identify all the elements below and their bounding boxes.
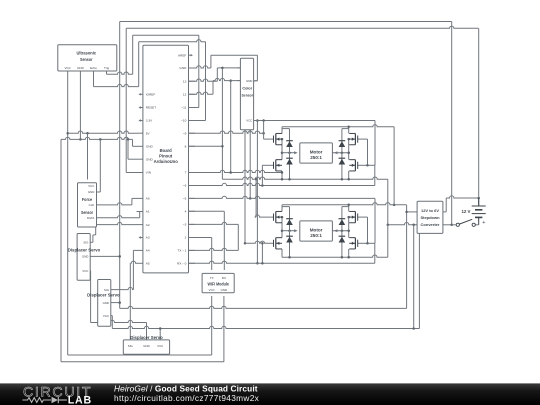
svg-text:HeiroGel / Good Seed Squad Cir: HeiroGel / Good Seed Squad Circuit bbox=[114, 384, 258, 394]
junction lower pin row ground column bbox=[387, 223, 390, 226]
wire battery top column bbox=[478, 28, 480, 205]
wire H-bridge 1 motor M1 left drain stub bbox=[281, 127, 283, 134]
svg-text:Displacer Servo: Displacer Servo bbox=[87, 293, 120, 298]
junction GND row ultrasonic column bbox=[79, 138, 82, 141]
junction H-bridge 2 motor M2 right source under rail bbox=[347, 256, 350, 259]
label H-bridge 1 motor M1 motor name bbox=[310, 149, 323, 160]
svg-text:Converter: Converter bbox=[421, 222, 440, 227]
svg-text:~10: ~10 bbox=[181, 119, 187, 123]
svg-text:A5: A5 bbox=[146, 262, 150, 266]
diode H-bridge 1 motor M1 D2 left lower bbox=[286, 158, 293, 164]
wire net switched 12V bottom rail bbox=[120, 205, 407, 309]
label H-bridge 2 motor M2 motor name bbox=[310, 227, 323, 238]
wire H-bridge 2 motor M2 right diode column bbox=[342, 207, 349, 258]
svg-text:DATA: DATA bbox=[87, 216, 94, 220]
junction H-bridge 2 motor M2 right gate tie bbox=[366, 242, 369, 245]
color sensor U3 box bbox=[240, 58, 253, 130]
wire color sensor bottom pin 1 to H-bridge 2 gate bbox=[244, 130, 246, 244]
wire H-bridge 1 motor M1 right diode column bbox=[342, 129, 349, 180]
svg-text:RX: RX bbox=[222, 276, 226, 280]
label color sensor bbox=[242, 79, 254, 123]
pin arrow H-bridge 1 motor M1 motor left bbox=[294, 151, 297, 154]
svg-text:2: 2 bbox=[185, 236, 187, 240]
wire ultrasonic GND column bbox=[79, 71, 81, 139]
svg-text:~9: ~9 bbox=[183, 131, 187, 135]
wire color sensor GND stub bbox=[254, 80, 258, 82]
label ultrasonic pins bbox=[65, 66, 110, 70]
junction RX row gate column bbox=[261, 262, 264, 265]
wire Arduino pin 6 row lower gate rail bbox=[189, 165, 375, 186]
svg-text:GND: GND bbox=[221, 288, 227, 292]
wire GND branch to Arduino GND 146 bbox=[133, 139, 137, 146]
junction pin 7 tap on 12 net bbox=[229, 79, 232, 82]
wire H-bridge 1 bottom-left gate feed bbox=[261, 165, 263, 185]
wire H-bridge 2 motor M2 right outer vertical bbox=[374, 199, 376, 244]
svg-text:GND: GND bbox=[246, 79, 252, 83]
stepdown converter U6 box bbox=[417, 201, 443, 233]
diode H-bridge 2 motor M2 D1 left upper bbox=[286, 219, 293, 225]
transistor H-bridge 1 motor M1 M2 bottom-left NMOS bbox=[274, 160, 283, 171]
svg-text:GND: GND bbox=[179, 66, 187, 70]
svg-text:A4: A4 bbox=[146, 249, 150, 253]
board U2 Arduino Uno box bbox=[143, 45, 189, 273]
junction 13 net column tap bbox=[221, 67, 224, 70]
svg-text:250:1: 250:1 bbox=[310, 233, 322, 238]
svg-text:Motor: Motor bbox=[310, 227, 323, 232]
wire H-bridge 1 drain rail link to H-bridge 2 bbox=[393, 127, 395, 205]
junction pin 7 row up-link column bbox=[229, 171, 232, 174]
wire force sensor VCC feed column bbox=[87, 133, 89, 179]
svg-text:A2: A2 bbox=[146, 223, 150, 227]
transistor H-bridge 2 motor M2 M4 bottom-right NMOS bbox=[349, 238, 358, 249]
svg-text:http://circuitlab.com/cz777t94: http://circuitlab.com/cz777t943mw2x bbox=[114, 393, 260, 403]
svg-text:Displacer Servo: Displacer Servo bbox=[130, 335, 163, 340]
wire Arduino VIN feed bbox=[126, 172, 136, 174]
label Arduino name bbox=[154, 148, 179, 164]
junction stepdown upper pin column bbox=[405, 211, 408, 214]
svg-text:CLK: CLK bbox=[89, 203, 95, 207]
label Arduino left pins bbox=[137, 93, 157, 266]
transistor H-bridge 2 motor M2 M1 top-left NMOS bbox=[274, 211, 283, 222]
junction H-bridge 1 motor M1 left diode under rail bbox=[288, 178, 291, 181]
wire Arduino pin 2 to WiFi TX bbox=[189, 238, 212, 271]
junction H-bridge 2 motor M2 right diode motor row bbox=[341, 229, 344, 232]
svg-text:Board: Board bbox=[160, 148, 173, 153]
wire H-bridge 2 motor M2 right gates tie bbox=[358, 217, 368, 243]
junction pin 8 tap bbox=[221, 145, 224, 148]
svg-text:VCC: VCC bbox=[209, 288, 215, 292]
wire Arduino pin 13 to color sensor bbox=[189, 68, 241, 81]
junction GND branch point bbox=[127, 138, 130, 141]
label Arduino right pins bbox=[177, 53, 195, 265]
wire H-bridge 1 motor M1 right half-bridge column bbox=[348, 139, 350, 160]
svg-text:Color: Color bbox=[242, 86, 252, 91]
svg-text:TX: TX bbox=[210, 276, 214, 280]
junction gate lead bbox=[244, 242, 247, 245]
transistor H-bridge 2 motor M2 M3 top-right NMOS bbox=[349, 211, 358, 222]
wire H-bridge 1 motor M1 right gates tie bbox=[358, 139, 368, 165]
wire Arduino TX and pin 3 link bbox=[189, 222, 239, 250]
wire Arduino pin 4 to WiFi RX bbox=[189, 211, 225, 270]
svg-text:Ultrasonic: Ultrasonic bbox=[77, 51, 97, 56]
svg-text:4: 4 bbox=[185, 210, 187, 214]
svg-text:IOREF: IOREF bbox=[146, 93, 156, 97]
junction pin 6 row gate column bbox=[261, 184, 264, 187]
svg-text:12 V: 12 V bbox=[461, 209, 470, 214]
wire H-bridge 2 motor M2 top-left gate lead bbox=[255, 215, 273, 217]
motor H-bridge 1 motor M1 box bbox=[300, 143, 333, 163]
svg-text:SIG: SIG bbox=[104, 288, 110, 292]
battery V1 12V bbox=[472, 198, 486, 225]
servo M5 displacer servo 1 box bbox=[77, 234, 90, 281]
junction H-bridge 2 motor M2 right node motor row bbox=[347, 229, 350, 232]
wire servo 3 VCC stub bbox=[159, 329, 161, 340]
junction pin 9 gate column bbox=[262, 132, 265, 135]
wire servo 2 GND to left power column bbox=[111, 302, 120, 304]
label battery plus bbox=[482, 220, 485, 226]
transistor H-bridge 1 motor M1 M3 top-right NMOS bbox=[349, 133, 358, 144]
diode H-bridge 1 motor M1 D3 right upper bbox=[339, 141, 346, 147]
svg-text:12V to 6V: 12V to 6V bbox=[421, 208, 439, 213]
wire H-bridge 1 motor M1 right gate branch bbox=[368, 164, 376, 166]
junction servo 2 GND column bbox=[118, 301, 121, 304]
svg-text:GND: GND bbox=[143, 344, 149, 348]
junction H-bridge 2 motor M2 right drain rail bbox=[347, 204, 350, 207]
wire H-bridge 2 motor M2 motor row left bbox=[282, 230, 295, 232]
wire servo 2 VCC to 6V supply rail bbox=[111, 233, 420, 328]
servo M6 displacer servo 2 box bbox=[98, 280, 111, 327]
diode H-bridge 2 motor M2 D2 left lower bbox=[286, 236, 293, 242]
wire H-bridge 2 motor M2 right source column bbox=[348, 249, 350, 257]
wire H-bridge 2 motor M2 right gate branch bbox=[368, 242, 376, 244]
wire H-bridge 1 motor M1 left diode column bbox=[282, 129, 290, 180]
wire H-bridge 2 motor M2 drain rail bbox=[282, 203, 407, 205]
wire Arduino RX row H-bridge 2 lower gate rail bbox=[189, 243, 375, 263]
junction under rail H-bridge 2 gate column bbox=[255, 178, 258, 181]
wire Arduino A4 to servo 2 SIG bbox=[111, 250, 137, 289]
junction switch feed column bbox=[450, 224, 453, 227]
wire H-bridge 1 motor M1 right outer vertical bbox=[374, 121, 376, 166]
junction VCC stub gate rail bbox=[256, 119, 259, 122]
svg-text:Sensor: Sensor bbox=[242, 93, 254, 98]
label servo 2 bbox=[87, 288, 120, 318]
wire H-bridge 2 motor M2 bottom-left gate lead bbox=[245, 241, 274, 243]
label force sensor bbox=[81, 184, 94, 220]
wire 13 net column down to under rail bbox=[221, 68, 223, 179]
svg-text:VCC: VCC bbox=[103, 314, 109, 318]
junction H-bridge 1 motor M1 right drain rail bbox=[347, 126, 350, 129]
svg-text:TX→1: TX→1 bbox=[178, 249, 187, 253]
wire H-bridge 2 under rail to converter ground bbox=[282, 255, 388, 257]
svg-text:250:1: 250:1 bbox=[310, 155, 322, 160]
svg-text:8: 8 bbox=[185, 145, 187, 149]
junction H-bridge 1 motor M1 left source under rail bbox=[281, 178, 284, 181]
label wifi module bbox=[207, 276, 229, 292]
node color sensor bottom pin stubs bbox=[245, 130, 250, 133]
junction H-bridge 2 motor M2 left diode under rail bbox=[288, 256, 291, 259]
wire H-bridge 1 under rail bbox=[222, 177, 387, 257]
junction lower pin row bottom column bbox=[412, 223, 415, 226]
servo M7 displacer servo 3 box bbox=[123, 340, 169, 354]
junction H-bridge 1 motor M1 left body tie bbox=[281, 138, 284, 141]
svg-text:GND: GND bbox=[103, 301, 109, 305]
wire Arduino pin 7 row to H-bridge 1 source node bbox=[189, 81, 283, 173]
junction H-bridge 2 motor M2 right body tie bbox=[347, 216, 350, 219]
wire net 5V column down to bottom rail and WiFi VCC bbox=[68, 71, 212, 355]
transistor H-bridge 1 motor M1 M1 top-left NMOS bbox=[274, 133, 283, 144]
wire stepdown upper-left pin bbox=[407, 211, 418, 213]
junction H-bridge 1 motor M1 right body tie bbox=[347, 138, 350, 141]
wire color sensor VCC descent bbox=[256, 121, 258, 264]
svg-text:Pinout: Pinout bbox=[159, 153, 173, 158]
junction H-bridge 1 motor M1 pin 7 row source column bbox=[281, 171, 284, 174]
wire color sensor bottom pin 2 down bbox=[249, 130, 251, 199]
switch SW1 bbox=[452, 219, 476, 226]
svg-text:GND: GND bbox=[88, 190, 94, 194]
svg-text:GND: GND bbox=[77, 66, 85, 70]
motor H-bridge 2 motor M2 box bbox=[300, 221, 333, 241]
junction servo 1 GND column bbox=[118, 255, 121, 258]
junction H-bridge 2 motor M2 left body tie bbox=[281, 216, 284, 219]
junction H-bridge 2 motor M2 left diode motor row bbox=[288, 229, 291, 232]
wire H-bridge 2 motor M2 left half-bridge column bbox=[281, 217, 283, 238]
wire stepdown lower-right pin to switch bbox=[443, 224, 452, 226]
wire stepdown lower-left pin row bbox=[388, 223, 417, 225]
svg-text:7: 7 bbox=[185, 171, 187, 175]
wire Arduino pin 9 to gate column bbox=[189, 131, 264, 133]
svg-text:12: 12 bbox=[183, 93, 187, 97]
svg-text:A3: A3 bbox=[146, 236, 150, 240]
svg-text:WiFi Module: WiFi Module bbox=[207, 281, 229, 286]
svg-text:RESET: RESET bbox=[146, 106, 156, 110]
svg-text:Echo: Echo bbox=[90, 66, 97, 70]
wire H-bridge 2 motor M2 left drain stub bbox=[281, 205, 283, 212]
wire H-bridge 1 motor M1 left source column bbox=[281, 171, 283, 179]
diode H-bridge 2 motor M2 D3 right upper bbox=[339, 219, 346, 225]
wire H-bridge 1 motor M1 top gate rail bbox=[257, 120, 375, 122]
wire ultrasonic Trig run bbox=[107, 71, 133, 74]
wire stepdown output to battery top bbox=[443, 196, 479, 212]
wire servo 1 VCC down to servo 3 GND bbox=[90, 271, 146, 340]
wire H-bridge 2 motor M2 left diode column bbox=[282, 207, 290, 258]
wire H-bridge 1 motor M1 drain rail bbox=[282, 125, 394, 127]
label servo 3 bbox=[128, 335, 163, 348]
junction servo 3 VCC supply rail bbox=[159, 327, 162, 330]
junction H-bridge 1 motor M1 gate rail tap bbox=[262, 119, 265, 122]
pin arrow H-bridge 2 motor M2 motor right bbox=[334, 229, 337, 232]
wire net GND row with left descent to bottom rail and WiFi GND bbox=[61, 137, 224, 362]
junction VCC column RX row bbox=[256, 262, 259, 265]
wire H-bridge 2 motor M2 left source column bbox=[281, 249, 283, 257]
wire H-bridge 1 motor M1 motor row left bbox=[282, 152, 295, 154]
wire H-bridge 1 motor M1 right source column bbox=[348, 171, 350, 179]
svg-text:Motor: Motor bbox=[310, 149, 323, 154]
label ultrasonic name bbox=[77, 51, 97, 63]
wire net Trig to pin 11 rail bbox=[133, 35, 199, 107]
svg-text:Stepdown: Stepdown bbox=[420, 215, 440, 220]
wire H-bridge 2 motor M2 motor row right bbox=[332, 230, 348, 232]
svg-text:GND: GND bbox=[146, 145, 154, 149]
junction H-bridge 1 motor M1 right node motor row bbox=[347, 151, 350, 154]
svg-text:VCC: VCC bbox=[82, 269, 88, 273]
svg-text:~5: ~5 bbox=[183, 197, 187, 201]
svg-text:VIN: VIN bbox=[146, 171, 151, 175]
wire Arduino pin 8 to column bbox=[189, 145, 223, 147]
svg-text:LAB: LAB bbox=[68, 395, 92, 405]
wire H-bridge 1 motor M1 motor row right bbox=[332, 152, 348, 154]
wifi module U5 box bbox=[202, 273, 234, 292]
wire Arduino pin 12 to color sensor bbox=[189, 78, 241, 94]
svg-text:ArduinoUno: ArduinoUno bbox=[154, 159, 179, 164]
svg-text:Trig: Trig bbox=[104, 66, 109, 70]
junction H-bridge 2 motor M2 left node motor row bbox=[281, 229, 284, 232]
junction bottom pin 2 on pin 5 row bbox=[249, 197, 252, 200]
svg-text:Sensor: Sensor bbox=[80, 57, 93, 62]
wire GND branch to Arduino GND 159 bbox=[128, 139, 137, 159]
junction gate feed top bbox=[261, 242, 264, 245]
wire force sensor GND feed column bbox=[97, 139, 101, 192]
footer banner CircuitLab bbox=[0, 383, 540, 405]
transistor H-bridge 2 motor M2 M2 bottom-left NMOS bbox=[274, 238, 283, 249]
junction H-bridge 1 motor M1 right diode under rail bbox=[341, 178, 344, 181]
svg-text:A0: A0 bbox=[146, 197, 150, 201]
svg-text:VCC: VCC bbox=[246, 119, 252, 123]
wire H-bridge 1 motor M1 left half-bridge column bbox=[281, 139, 283, 160]
wire H-bridge 2 bottom-left gate feed bbox=[261, 243, 263, 263]
force sensor U4 box bbox=[78, 183, 97, 227]
label battery value 12 V bbox=[461, 209, 470, 214]
svg-text:Force: Force bbox=[82, 197, 93, 202]
svg-text:Displacer Servo: Displacer Servo bbox=[68, 247, 101, 252]
wire Arduino pin 5 row H-bridge 2 top gate rail bbox=[189, 196, 376, 198]
wire H-bridge 1 motor M1 right drain stub bbox=[348, 127, 350, 134]
svg-text:VCC: VCC bbox=[65, 66, 72, 70]
wire net VBAT switch top rail bbox=[120, 22, 452, 309]
diode H-bridge 1 motor M1 D4 right lower bbox=[339, 158, 346, 164]
diode H-bridge 1 motor M1 D1 left upper bbox=[286, 141, 293, 147]
svg-text:Sensor: Sensor bbox=[81, 210, 93, 215]
svg-text:VCC: VCC bbox=[88, 184, 94, 188]
pin arrow H-bridge 2 motor M2 motor left bbox=[294, 229, 297, 232]
svg-text:GND: GND bbox=[82, 255, 88, 259]
wire H-bridge 2 motor M2 right drain stub bbox=[348, 205, 350, 212]
svg-text:~6: ~6 bbox=[183, 184, 187, 188]
wire ultrasonic Echo run bbox=[94, 71, 139, 87]
svg-text:+: + bbox=[482, 220, 485, 226]
svg-text:RX←0: RX←0 bbox=[177, 262, 186, 266]
node color sensor left pin stubs bbox=[237, 68, 240, 81]
pin arrow H-bridge 1 motor M1 motor right bbox=[334, 151, 337, 154]
junction H-bridge 1 motor M1 right source under rail bbox=[347, 178, 350, 181]
junction 5V column and row bbox=[66, 132, 69, 135]
junction H-bridge 1 motor M1 left node motor row bbox=[281, 151, 284, 154]
svg-text:~3: ~3 bbox=[183, 223, 187, 227]
label servo 1 bbox=[68, 241, 101, 273]
diode H-bridge 2 motor M2 D4 right lower bbox=[339, 236, 346, 242]
junction H-bridge 1 motor M1 right diode motor row bbox=[341, 151, 344, 154]
svg-text:AREF: AREF bbox=[178, 53, 186, 57]
wire color sensor VCC stub bbox=[254, 120, 258, 122]
wire Arduino A5 to servo 3 SIG bbox=[130, 261, 136, 340]
wire net 12V top rail to battery column bbox=[126, 26, 478, 172]
wire 5V row from Arduino bbox=[68, 131, 137, 133]
wire H-bridge 2 top-left gate feed column bbox=[255, 179, 257, 217]
wire servo 1 GND to left power column bbox=[90, 255, 120, 257]
transistor H-bridge 1 motor M1 M4 bottom-right NMOS bbox=[349, 160, 358, 171]
wire H-bridge 2 motor M2 right half-bridge column bbox=[348, 217, 350, 238]
junction stepdown lower column supply rail bbox=[412, 327, 415, 330]
junction H-bridge 2 motor M2 right diode under rail bbox=[341, 256, 344, 259]
label stepdown converter bbox=[420, 208, 440, 227]
wire force DATA to Arduino A1 bbox=[97, 212, 140, 218]
junction GND row force GND column bbox=[99, 138, 102, 141]
wire stepdown lower column bbox=[413, 225, 415, 329]
wire H-bridge 1 motor M1 bottom-left gate lead bbox=[262, 164, 273, 166]
svg-text:~11: ~11 bbox=[181, 106, 186, 110]
svg-text:SIG: SIG bbox=[83, 241, 89, 245]
svg-text:A1: A1 bbox=[146, 210, 150, 214]
svg-text:VCC: VCC bbox=[157, 344, 163, 348]
wire Arduino A2 to servo 1 SIG bbox=[90, 222, 136, 242]
wire Arduino GND to color sensor GND over box bbox=[189, 55, 258, 81]
junction drain link H-bridge 2 rail bbox=[393, 204, 396, 207]
svg-text:13: 13 bbox=[183, 79, 187, 83]
svg-text:SIG: SIG bbox=[128, 344, 134, 348]
wire H-bridge 1 motor M1 top-left gate column bbox=[264, 121, 274, 140]
svg-text:3.3V: 3.3V bbox=[146, 119, 153, 123]
wire force CLK to Arduino A0 bbox=[97, 198, 137, 205]
junction H-bridge 1 motor M1 right gate tie bbox=[366, 164, 369, 167]
svg-text:GND: GND bbox=[146, 157, 154, 161]
junction H-bridge 1 motor M1 left diode motor row bbox=[288, 151, 291, 154]
ultrasonic sensor U1 box bbox=[58, 45, 117, 71]
junction battery column converter output bbox=[477, 197, 480, 200]
junction 5V row force VCC column bbox=[86, 132, 89, 135]
wire net Echo to pin 10 rail bbox=[139, 40, 206, 121]
